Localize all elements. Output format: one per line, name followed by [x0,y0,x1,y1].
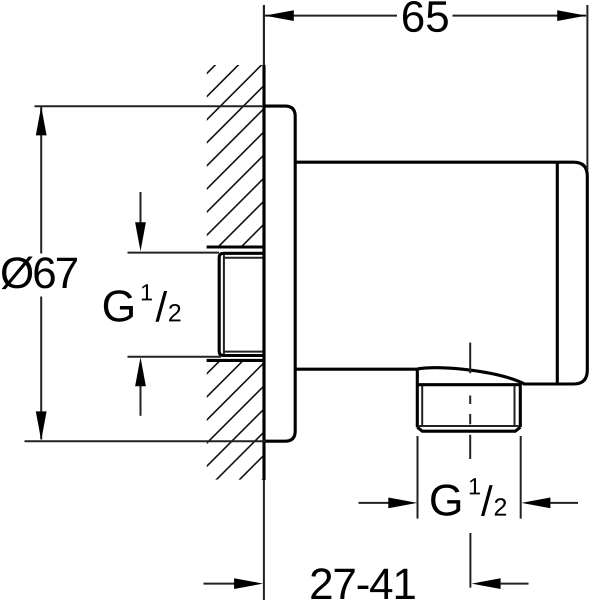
outlet nipple right edge [519,383,522,427]
dim 65 text [403,1,448,32]
dim G1/2 inlet arrow up head [135,357,146,386]
dim 65 line left segment [265,15,397,17]
wall notch top edge [207,245,264,248]
dim G1/2 outlet extension right [520,436,522,519]
wall hatching lower section [0,55,589,485]
dim Ø67 extension top [35,105,264,107]
dim G1/2 inlet arrow up tail [140,386,142,416]
dim 27-41 extension right (outlet centerline extended) [469,533,471,588]
inlet thread minor diameter top [224,257,264,259]
wall notch bottom edge [207,359,264,362]
outlet nipple bottom chamfered tip [417,427,520,431]
dim G1/2 inlet arrow down head [135,222,146,251]
dim 27-41 left line [204,583,236,585]
wall face extension line below [263,480,265,600]
body top edge and right cap outline [295,162,587,384]
dim Ø67 line upper segment [40,107,42,254]
dim 65 arrow right [557,10,586,21]
dim Ø67 arrow down [36,411,47,440]
outlet centerline [469,343,471,374]
dim 65 extension line left [263,5,265,65]
dim G1/2 outlet left line [359,502,390,504]
dim Ø67 extension bottom [25,440,267,442]
body bottom edge [295,368,417,371]
dim 27-41 right line [501,583,529,585]
dim G1/2 inlet extension bottom [128,356,222,358]
wall face extension line above [263,5,265,65]
dim 65 arrow left [265,10,294,21]
dim Ø67 text [2,257,77,290]
inlet thread chamfer line [223,255,225,355]
inlet thread G1/2 outer profile [219,253,264,355]
dim G1/2 outlet right arrow [521,498,550,509]
dim 65 extension line right [586,5,588,170]
dim G1/2 outlet extension left [417,436,419,519]
dim Ø67 arrow up [36,106,47,135]
outlet boss curve [417,368,524,384]
dim G1/2 outlet label [431,478,506,516]
dim G1/2 inlet extension top [128,252,220,254]
cap separation line [556,163,559,384]
inlet thread minor diameter bottom [224,351,264,353]
dim 27-41 text [311,568,414,599]
dim Ø67 line lower segment [40,297,42,440]
wall flange outline [264,106,295,441]
outlet thread root line [419,425,519,427]
dim G1/2 inlet arrow down tail [140,192,142,224]
dim G1/2 inlet label [104,284,181,322]
dim 65 line right segment [453,15,587,17]
dim G1/2 outlet left arrow [388,498,417,509]
dim 27-41 left arrow [234,578,263,589]
wall hatching upper section [0,55,589,485]
outlet thread minor diameter right [514,386,516,426]
dim G1/2 outlet right line [550,502,578,504]
outlet nipple top edge [417,383,520,386]
dim 27-41 right arrow [472,578,501,589]
wall face line [262,65,265,480]
outlet nipple left edge [416,369,419,427]
outlet thread minor diameter left [421,386,423,426]
